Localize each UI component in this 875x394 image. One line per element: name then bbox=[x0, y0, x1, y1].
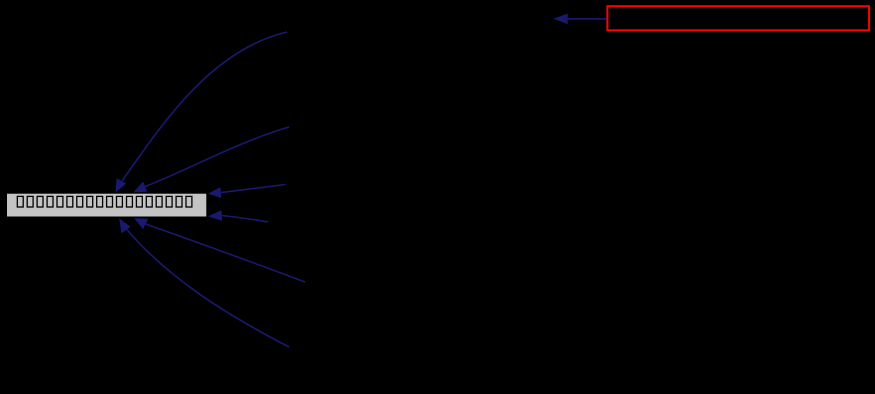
edge 3: horizontal arrow into right edge (upper) bbox=[208, 185, 286, 199]
edge 5: lower-middle line into bottom of grey node bbox=[134, 218, 305, 282]
edge 1: top-right curve into top of grey node bbox=[116, 32, 288, 193]
edge 6: bottom-right curve into bottom of grey node bbox=[119, 218, 289, 347]
edge 7: arrow from red node pointing left bbox=[553, 14, 606, 25]
label: 18 tofu glyphs inside grey node bbox=[17, 196, 192, 207]
edge 2: upper-middle line into top of grey node bbox=[134, 127, 290, 192]
node: truncated caller (red box, top right) bbox=[607, 6, 869, 30]
node: current file (grey box) bbox=[7, 193, 207, 217]
edge 4: horizontal arrow into right edge (lower) bbox=[208, 210, 268, 222]
